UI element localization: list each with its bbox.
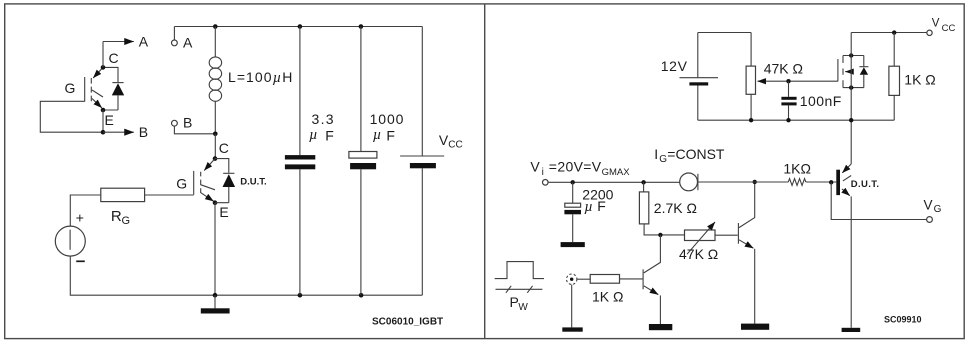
resistor 2.7K top lead — [643, 182, 645, 192]
current source IG circle — [680, 173, 698, 191]
wire: RG to DUT gate — [145, 194, 194, 196]
battery VCC (left) top lead — [421, 27, 423, 156]
battery 12V thin plate — [680, 77, 719, 79]
junction dot bottom rail / ground — [213, 293, 218, 298]
svg-text:C: C — [219, 140, 229, 156]
IGBT D.U.T. Q2 : collector node dot — [213, 156, 218, 161]
capacitor C2 1000uF top lead — [360, 27, 362, 152]
terminal VCC (right) — [927, 30, 932, 35]
svg-text:I: I — [654, 146, 658, 162]
wire: current source to resistor 1K zigzag — [698, 181, 788, 183]
junction dot bottom rail / pot — [749, 118, 753, 122]
svg-text:G: G — [176, 176, 187, 192]
IGBT D.U.T. (right) thick bar — [836, 170, 840, 195]
svg-text:C: C — [109, 50, 119, 66]
svg-text:B: B — [139, 124, 148, 140]
capacitor C2 bottom lead — [360, 169, 362, 295]
resistor 2.7K body — [639, 192, 648, 224]
body diode Q3 : triangle — [860, 67, 868, 75]
junction dot VCC rail / 1K — [892, 30, 896, 34]
junction dot bottom rail / Q3 source — [849, 118, 853, 122]
wire: VCC rail (top right) — [851, 32, 927, 34]
wire: zigzag to DUT gate — [806, 181, 837, 183]
svg-text:SC06010_IGBT: SC06010_IGBT — [372, 317, 443, 328]
node E (module) junction dot — [101, 108, 106, 113]
battery 12V top lead — [697, 33, 699, 78]
ground (2200uF) bar — [561, 242, 585, 247]
capacitor 100nF bottom lead — [788, 105, 790, 120]
ground (left panel) stub — [214, 295, 216, 308]
svg-text:+: + — [76, 210, 84, 226]
IGBT module Q1 : middle diagonal — [92, 90, 103, 97]
transistor Q5 collector diagonal — [739, 182, 755, 228]
wire: arrow to terminal B — [103, 131, 134, 133]
body diode Q3 : cathode bar — [859, 66, 868, 68]
wire: Vi to current source — [548, 181, 680, 183]
svg-text:1000: 1000 — [370, 111, 405, 127]
svg-text:E: E — [219, 204, 228, 220]
resistor 1K (bottom) body — [590, 275, 619, 284]
resistor 1K (top right) body — [889, 66, 900, 95]
svg-text:E: E — [105, 112, 114, 128]
IGBT D.U.T. (right) emitter diagonal with arrow — [842, 189, 850, 196]
IGBT D.U.T. Q2 : channel segments — [200, 172, 202, 193]
svg-text:F: F — [386, 127, 395, 143]
IGBT module Q1 : collector diagonal with arrow — [93, 67, 103, 78]
transistor Q5 emitter diagonal with arrow — [739, 240, 753, 248]
MOSFET Q3 channel segments — [842, 56, 844, 88]
potentiometer 47K (horizontal) body — [685, 230, 716, 241]
svg-text:=CONST: =CONST — [667, 146, 725, 162]
battery 12V thick plate — [689, 82, 708, 85]
MOSFET Q3 body arrow — [845, 71, 851, 73]
capacitor 100nF plates — [781, 97, 796, 100]
svg-text:V: V — [530, 158, 540, 174]
pulse width slashes — [506, 286, 533, 293]
ground (pulse) bar — [562, 327, 582, 331]
wire: arrow to terminal A — [103, 41, 134, 43]
voltage source V1 circle — [55, 226, 85, 256]
battery VCC bottom lead — [421, 168, 423, 295]
wire: source to RG — [70, 195, 101, 226]
svg-text:SC09910: SC09910 — [884, 315, 922, 325]
svg-text:G: G — [934, 204, 942, 215]
svg-text:47K Ω: 47K Ω — [764, 60, 803, 76]
IGBT D.U.T. Q2 : collector diagonal with arrow — [204, 159, 215, 171]
junction dot bottom rail / 3.3uF — [298, 293, 303, 298]
svg-text:B: B — [183, 115, 192, 131]
svg-text:W: W — [518, 302, 528, 313]
junction dot Q3 source — [849, 85, 853, 89]
wire: terminal B to node — [174, 126, 215, 134]
terminal Vi — [543, 180, 549, 186]
wire: module collector up — [102, 42, 104, 68]
potentiometer 47K wiper arrow — [758, 80, 789, 82]
node C (module) junction dot — [101, 65, 106, 70]
wire: DUT emitter to ground — [850, 196, 852, 327]
svg-text:V: V — [924, 197, 933, 212]
capacitor 2200uF bottom lead — [572, 214, 574, 242]
junction dot 2200uF — [571, 180, 575, 184]
terminal VG — [927, 217, 933, 223]
junction dot DUT gate — [829, 180, 833, 184]
junction dot below inductor — [213, 132, 218, 137]
terminal B — [172, 120, 178, 126]
svg-text:L=100µH: L=100µH — [228, 69, 293, 86]
wire: Q3 vertical drain/source line — [850, 33, 852, 165]
svg-text:i: i — [542, 167, 544, 178]
svg-text:1K Ω: 1K Ω — [592, 289, 623, 305]
svg-text:V: V — [932, 18, 940, 30]
wire: DUT emitter to bottom rail — [214, 203, 216, 296]
IGBT module Q1 (gate-emitter shorted) : gate bar — [84, 77, 86, 102]
terminal A — [172, 40, 178, 46]
diode D2 (DUT anti-parallel) connections — [215, 159, 229, 203]
wire: module emitter down — [102, 110, 104, 132]
terminal pulse input center dot — [570, 278, 573, 281]
svg-text:47K Ω: 47K Ω — [679, 246, 718, 262]
IGBT D.U.T. (right) collector diagonal with arrow — [842, 164, 851, 173]
capacitor 2200uF plates (electrolytic) — [565, 203, 581, 207]
battery VCC thick plate — [410, 163, 436, 168]
terminal pulse input (dashed circle) — [567, 274, 577, 284]
pulse width base line — [496, 288, 543, 290]
svg-text:CC: CC — [942, 23, 956, 34]
svg-text:F: F — [597, 198, 606, 214]
wire: 12V loop bottom rail — [698, 119, 894, 121]
battery 12V bottom lead — [697, 86, 699, 121]
junction dot top rail / 3.3uF — [298, 24, 303, 29]
svg-text:µ: µ — [584, 199, 593, 215]
wire: 12V loop top — [698, 32, 751, 34]
wire: pulse terminal to 1K — [577, 278, 590, 280]
ground (left panel) bar — [201, 308, 230, 313]
svg-text:CC: CC — [448, 140, 462, 151]
IGBT D.U.T. Q2 : emitter diagonal with arrow — [201, 193, 214, 201]
resistor 1K bottom lead — [893, 95, 895, 120]
junction dot wiper/100nF — [786, 79, 790, 83]
wire: module gate to emitter loop — [40, 101, 103, 132]
IGBT module Q1 : emitter diagonal with arrow — [92, 99, 102, 108]
MOSFET Q3 drain stub — [843, 55, 864, 57]
wire: source bottom to bottom rail — [70, 256, 422, 295]
diode D1 : triangle — [112, 83, 124, 95]
wire: Q4 emitter to ground — [659, 295, 661, 324]
IGBT D.U.T. Q2 : middle diagonal — [201, 185, 215, 190]
svg-text:3.3: 3.3 — [312, 111, 335, 127]
IGBT D.U.T. (right) middle diagonal — [843, 176, 851, 181]
wire: wiper to MOSFET gate — [789, 80, 838, 82]
transistor Q4 collector diagonal — [644, 235, 661, 273]
diode D1 (module anti-parallel) : connections — [103, 67, 118, 110]
transistor Q4 (BJT1) base bar — [642, 269, 644, 289]
body diode Q3 : leads — [863, 56, 865, 88]
pulse waveform symbol — [495, 262, 544, 279]
capacitor C1 3.3uF top lead — [299, 27, 301, 156]
svg-text:D.U.T.: D.U.T. — [851, 179, 880, 190]
wire: pulse terminal to ground — [571, 285, 573, 328]
transistor Q4 emitter diagonal with arrow — [644, 286, 659, 295]
junction dot top rail / 1000uF — [359, 24, 364, 29]
ground (Q5) bar — [741, 324, 769, 330]
svg-text:2.7K Ω: 2.7K Ω — [654, 200, 697, 216]
svg-text:G: G — [122, 215, 131, 227]
junction dot main wire / Q5 collector — [753, 180, 757, 184]
IGBT module Q1 : channel segments — [90, 78, 92, 101]
capacitor C1 plates — [285, 155, 315, 159]
MOSFET Q3 source stub — [843, 87, 864, 89]
transistor Q5 (BJT2) base bar — [737, 223, 739, 244]
junction dot bottom rail / 100nF — [786, 118, 790, 122]
svg-text:G: G — [65, 80, 76, 96]
ground (DUT right) bar — [842, 328, 861, 332]
junction dot bottom rail / 1000uF — [359, 293, 364, 298]
wire: gate node to VG terminal — [831, 182, 926, 219]
svg-text:=20V=V: =20V=V — [549, 158, 602, 174]
current source IG bar — [697, 174, 699, 190]
svg-text:1K Ω: 1K Ω — [904, 72, 935, 88]
svg-text:GMAX: GMAX — [602, 167, 631, 178]
svg-text:R: R — [111, 208, 122, 225]
battery VCC thin plate — [400, 155, 444, 157]
potentiometer 47K (top) body — [746, 66, 755, 94]
svg-text:D.U.T.: D.U.T. — [240, 177, 266, 188]
IGBT D.U.T. Q2 : gate bar — [193, 171, 195, 195]
svg-text:1KΩ: 1KΩ — [783, 161, 811, 177]
junction dot Q3 drain — [849, 53, 853, 57]
svg-text:A: A — [139, 33, 149, 49]
ground (Q4) bar — [649, 324, 672, 330]
wire: top rail — [174, 26, 422, 28]
diode D2 cathode bar — [223, 172, 234, 174]
inductor L1 leads — [214, 27, 216, 134]
IGBT D.U.T. Q2 : emitter node dot — [213, 200, 218, 205]
capacitor 2200uF top lead — [572, 182, 574, 203]
capacitor C1 bottom lead — [299, 169, 301, 295]
potentiometer 47K bottom lead — [750, 94, 752, 120]
wire: terminal A to top rail — [173, 27, 175, 41]
wire: node B to DUT collector — [214, 134, 216, 159]
junction dot 2.7K / BJT1 collector — [658, 233, 662, 237]
junction dot module emitter/B — [101, 130, 106, 135]
resistor RG — [101, 188, 145, 201]
resistor 2.7K bottom lead / wire to pot — [644, 224, 684, 235]
svg-text:µ: µ — [373, 127, 382, 143]
label minus — [76, 260, 85, 262]
resistor 1K top lead — [893, 33, 895, 67]
diode D1 : cathode bar — [112, 82, 123, 84]
svg-text:G: G — [659, 154, 667, 165]
capacitor C2 plates (electrolytic) — [349, 152, 377, 159]
resistor 1K zigzag — [788, 179, 806, 186]
junction dot top rail / inductor — [213, 24, 218, 29]
wire: 1K to Q4 base — [620, 278, 643, 280]
svg-text:µ: µ — [309, 127, 318, 143]
junction dot 2.7K — [641, 180, 645, 184]
diode D2 triangle — [223, 174, 236, 187]
wire: Q5 emitter to ground — [754, 249, 756, 324]
MOSFET Q3 gate bar — [837, 59, 839, 81]
wire: pot to BJT2 base — [715, 234, 738, 236]
svg-text:F: F — [325, 127, 334, 143]
svg-text:100nF: 100nF — [800, 93, 842, 109]
capacitor 100nF top lead — [788, 81, 790, 97]
potentiometer 47K top lead — [750, 33, 752, 67]
inductor L1 coil loops — [209, 57, 221, 101]
svg-text:A: A — [183, 34, 193, 50]
voltage source V1 inner bar — [69, 230, 71, 250]
potentiometer 47K (horizontal) diagonal arrow — [687, 222, 715, 254]
svg-text:12V: 12V — [661, 58, 688, 74]
